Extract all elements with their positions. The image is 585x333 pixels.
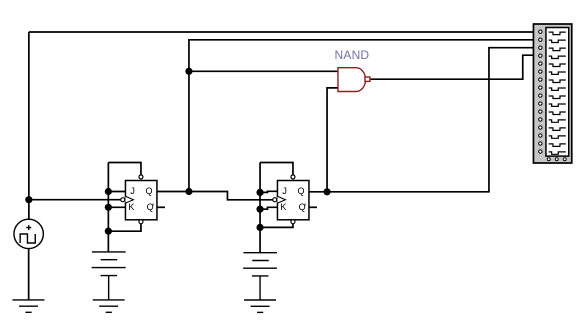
JK flip-flop U2 (second): [273, 175, 309, 224]
wire: FF2 J input with jog: [260, 191, 277, 192]
wire: FF2 Q output to analyzer riser: [309, 48, 539, 192]
wire: FF1 preset loop (rail to top pin): [108, 163, 141, 175]
FF1 preset pin circle: [139, 175, 143, 179]
pin label Q' (FF1): [147, 203, 153, 212]
ground (battery B2): [244, 300, 276, 312]
FF1 clock bubble: [121, 198, 125, 202]
battery B2 (FF2 supply): [243, 253, 277, 300]
wire: NAND input 2 riser: [327, 88, 338, 192]
wire: FF1 Q output to step: [157, 192, 273, 200]
analyzer waveform traces (16 rows): [549, 32, 566, 154]
wire: FF1 left rail vertical: [107, 163, 109, 252]
analyzer input pins (16): [539, 30, 542, 153]
wire: pulse source bottom to ground: [28, 248, 30, 299]
node: FF2 clear-loop junction: [256, 224, 263, 231]
logic analyzer U4: [533, 24, 571, 163]
analyzer bottom pins (3): [547, 158, 566, 161]
wire: FF2 Q' stub: [309, 206, 317, 208]
wire: battery B2 to ground: [259, 276, 261, 300]
wire: FF2 K input with jog: [260, 207, 277, 209]
wire: NAND input 1 from riser: [189, 70, 338, 72]
wire: FF1 J input: [108, 191, 125, 193]
NAND gate U3: [338, 68, 370, 92]
pin label Q (FF1): [146, 187, 153, 196]
wire: FF1 K input: [108, 206, 125, 208]
wire: FF1 Q riser up to analyzer pin 2: [189, 40, 539, 192]
node: FF1 clear-loop junction: [105, 228, 112, 235]
pin label K (FF2): [280, 203, 286, 212]
pin label Q (FF2): [298, 187, 305, 196]
wire: top rail from corner to logic analyzer pin 1: [29, 31, 539, 33]
node: FF1 Q junction: [185, 188, 192, 195]
FF2 preset pin circle: [291, 175, 295, 179]
FF1 clear pin circle: [139, 220, 143, 224]
FF2 clear pin circle: [291, 220, 295, 224]
pin label J (FF1): [130, 187, 135, 196]
node: FF1 J junction: [105, 188, 112, 195]
node: FF2 K junction: [256, 206, 263, 213]
FF1 clock edge triangle: [125, 196, 133, 203]
pin label K (FF1): [128, 203, 134, 212]
node: FF2 J junction: [256, 189, 263, 196]
FF2 clock bubble: [273, 198, 277, 202]
wire: battery B1 to ground: [108, 276, 110, 300]
JK flip-flop U1 (first): [121, 175, 157, 224]
wire: NAND output to analyzer pin 4: [370, 55, 539, 79]
pulse/clock source V1: [14, 219, 43, 248]
FF2 clock edge triangle: [277, 196, 285, 203]
ground (battery B1): [93, 300, 125, 312]
node: clock junction: [25, 196, 32, 203]
pin label J (FF2): [282, 187, 287, 196]
ground (pulse source): [12, 300, 44, 312]
NAND output bubble (small square): [365, 77, 370, 81]
node: FF1 K junction: [105, 204, 112, 211]
wire: FF2 clear loop (bottom pin to rail): [260, 224, 293, 228]
wire: FF1 Q' stub: [157, 206, 165, 208]
wire: FF1 clear loop (bottom pin to rail): [108, 224, 141, 231]
wire: FF2 left rail vertical: [259, 163, 261, 253]
wire: clock to FF1 clock input: [29, 199, 121, 201]
analyzer display window: [546, 28, 569, 157]
node: NAND input 1 junction: [185, 68, 192, 75]
wire: clock net vertical from pulse source up to top-left corner: [28, 32, 30, 219]
battery B1 (FF1 supply): [92, 252, 126, 300]
node: FF2 Q junction: [323, 188, 330, 195]
pin label Q' (FF2): [299, 203, 305, 212]
wire: FF2 preset loop (rail to top pin): [260, 163, 293, 175]
label NAND (gate name): [335, 49, 370, 61]
